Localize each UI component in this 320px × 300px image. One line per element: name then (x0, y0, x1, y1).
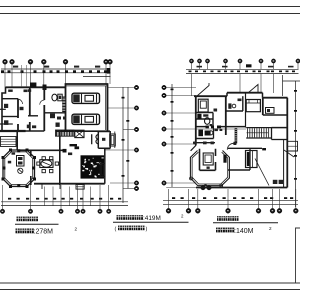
plan2 left wall (195, 96, 197, 145)
plan2 bed wall (262, 98, 264, 115)
plan1 bottom axis bubble 4 (75, 209, 79, 213)
plan2 bottom axis stem 4 (227, 189, 229, 208)
plan2 top wall connector 2 (262, 93, 264, 98)
plan2 bay corner circle 3 (190, 177, 193, 180)
plan2 roof gable right (249, 85, 259, 93)
plan1 door arc room2 (18, 99, 23, 104)
plan2 top axis line 1 (191, 63, 193, 69)
plan1 top axis bubble 3 (28, 59, 33, 64)
plan2 bath1 wall (226, 110, 243, 112)
plan1 right wall window (110, 134, 116, 146)
plan1 extension line a (21, 65, 23, 87)
plan1 top axis bubble 6 (104, 59, 109, 64)
plan2 bottom axis bubble 2 (186, 208, 191, 213)
svg-text::419M: :419M (143, 215, 161, 222)
plan1 dim end tick (107, 68, 110, 74)
plan1 car 2 (72, 114, 100, 124)
svg-text:2: 2 (269, 226, 272, 231)
plan2 top axis line 6 (260, 63, 262, 69)
plan1 dining divider wall (30, 150, 32, 185)
plan1 wall A vertical (17, 99, 19, 131)
plan2 mid room wall (228, 169, 250, 171)
plan1 dining right wall (59, 150, 61, 185)
plan1 kitchen fixture 1 (52, 94, 57, 101)
plan1 top axis line 6 (105, 64, 107, 84)
plan1 living table round (18, 168, 23, 173)
plan2 right dim vert 1 (282, 75, 284, 96)
plan1 dining chairs (42, 157, 45, 160)
plan1 right axis leader 4 (104, 149, 134, 151)
plan2 center wall v (245, 93, 247, 128)
plan1 top axis line 2 (11, 64, 13, 87)
plan1 right axis bubble 4 (134, 148, 138, 152)
plan2 corridor marks (215, 129, 218, 132)
plan1 bottom dimension line 2 (1, 205, 128, 207)
plan1 top axis bubble 2 (10, 59, 15, 64)
plan2 bay connector (191, 146, 196, 151)
plan1 column on top wall (30, 83, 36, 87)
plan1 door mark hall (28, 89, 31, 92)
plan2 top dimension texts (197, 66, 203, 68)
plan1 furniture mark room3 (4, 120, 8, 125)
plan1 bottom dimension ticks (8, 198, 11, 200)
plan1 garage top inner line (66, 85, 108, 87)
plan2 left axis leader 6 (166, 182, 196, 184)
svg-text::278M: :278M (34, 229, 54, 236)
plan1 bottom axis stem 4 (77, 185, 79, 209)
svg-text:(: ( (115, 226, 117, 232)
plan2 roof gable left (197, 83, 209, 96)
plan1 lower right wall (104, 152, 106, 184)
plan2 left axis bubble 4 (162, 127, 166, 131)
plan1 wall hall h (28, 115, 38, 117)
plan2 left axis leader 5 (166, 143, 196, 145)
plan1 top dimension ticks (1, 70, 4, 72)
plan1 bottom wall (34, 183, 105, 185)
plan2 bottom axis stem 7 (279, 189, 281, 208)
plan1 right axis leader 3 (123, 129, 134, 131)
plan2 bottom dimension line 1 (163, 200, 298, 202)
plan1 garage outline (66, 84, 108, 131)
plan2 wall v right area (249, 148, 251, 170)
plan1 bottom axis stem 2 (30, 185, 32, 209)
plan1 right axis bubble 1 (134, 85, 138, 89)
plan2 bay corner circle 2 (220, 184, 223, 187)
plan2 room1 desk (198, 99, 208, 112)
plan2 top axis bubble 5 (238, 59, 242, 63)
plan1 wall under left rooms (0, 123, 13, 125)
plan2 bottom axis bubble 8 (293, 208, 298, 213)
plan2 bottom axis bubble 6 (270, 208, 275, 213)
plan1 top dimension line 3 (83, 76, 111, 78)
plan2 top axis bubble 1 (189, 59, 193, 63)
plan2 left axis bubble 3 (162, 111, 166, 115)
plan2 left axis leader 3 (166, 112, 196, 114)
plan2 axis drop 2 (260, 74, 262, 93)
plan2 bottom axis bubble 4 (226, 208, 231, 213)
plan1 dining top wall blob (63, 149, 67, 153)
plan2 axis drop long (191, 74, 193, 96)
plan2 right balcony (287, 141, 297, 151)
plan2 bath1 fixtures (228, 103, 231, 108)
sheet border bottom line 1 (0, 282, 300, 284)
plan2 top dimension ticks (189, 71, 192, 73)
plan1 dining top wall (17, 149, 62, 151)
label plan2 title (217, 216, 221, 221)
plan1 car 1 (72, 93, 100, 103)
plan1 bay window outer (3, 150, 35, 187)
plan1 bottom axis stem 1 (2, 185, 4, 209)
plan2 door arc (227, 143, 233, 149)
plan1 bottom axis bubble 2 (28, 209, 32, 213)
plan1 mid wall left (26, 130, 45, 132)
plan2 top axis bubble 2 (197, 59, 201, 63)
plan2 bottom axis stem 8 (295, 189, 297, 208)
plan2 staircase (246, 128, 271, 138)
plan1 right dim line 1 (122, 87, 124, 203)
plan1 wc fixture (102, 138, 105, 141)
plan1 bottom axis stem 3 (60, 185, 62, 209)
plan2 roof diagonal 1 (255, 159, 269, 186)
plan1 top dimension texts (13, 66, 18, 68)
plan2 top wall right block (263, 97, 288, 99)
plan1 entry threshold (70, 144, 78, 146)
plan1 bay mullion marks (9, 149, 12, 152)
plan2 small bath wall (196, 112, 213, 114)
plan2 planter boxes (273, 180, 278, 184)
plan1 wall room divider h1 (2, 98, 18, 100)
plan1 pantry fixture (50, 114, 55, 119)
plan2 bottom dimension line 2 (163, 204, 298, 206)
plan1 bottom axis stem 7 (108, 185, 110, 209)
plan1 hall wall v (59, 131, 61, 150)
plan1 right corner wall (105, 149, 110, 153)
svg-text::140M: :140M (234, 228, 254, 235)
plan2 left axis leader 4 (166, 128, 246, 130)
plan2 stair room wall (272, 139, 288, 141)
plan2 bath1 right wall (242, 96, 244, 111)
plan2 right dim vert 2 (295, 81, 297, 207)
plan2 top axis bubble 7 (271, 59, 275, 63)
plan2 top axis line 5 (239, 63, 241, 69)
plan2 left axis leader 1 (166, 87, 196, 89)
plan2 axis drop 1 (239, 74, 241, 93)
plan2 wall h right area (228, 147, 262, 149)
plan2 bottom axis stem 3 (197, 189, 199, 208)
plan1 store fixtures (57, 117, 61, 120)
plan1 bottom axis bubble 3 (59, 209, 63, 213)
plan1 bath fixtures left (27, 125, 31, 129)
plan2 bay room window marks (193, 142, 196, 145)
plan2 dim text block (246, 64, 252, 67)
plan2 top axis line 4 (225, 63, 227, 69)
plan2 bay bed mark (207, 167, 210, 169)
plan2 roof diagonal 2 (284, 150, 294, 157)
plan1 bottom extension lines (44, 187, 46, 206)
plan1 porch step lines (1, 138, 17, 140)
plan2 bottom wall (196, 187, 287, 189)
plan2 top wall left block (194, 95, 227, 97)
title block corner (296, 228, 301, 283)
plan2 bath2 fixtures (198, 130, 203, 137)
plan2 corner mark (262, 148, 266, 150)
plan2 wall v mid (225, 96, 227, 135)
plan2 top axis line 2 (199, 63, 201, 69)
plan2 left axis leader 2 (166, 95, 196, 97)
svg-text:2: 2 (75, 227, 78, 232)
plan2 room1 bottom wall (196, 118, 213, 120)
plan2 left dim line (171, 84, 173, 187)
plan1 left wall upper (2, 87, 6, 132)
plan1 top axis line 5 (65, 64, 67, 131)
plan1 right axis leader 2 (107, 107, 134, 109)
sheet border top line 2 (0, 13, 300, 15)
plan1 wc room (98, 132, 110, 149)
plan1 double door (92, 134, 99, 144)
plan1 right dim line 2 (127, 87, 129, 189)
plan2 top axis bubble 3 (205, 59, 209, 63)
plan1 living sofa (17, 156, 25, 167)
plan1 top axis line 7 (109, 64, 111, 84)
plan2 inner right wall (283, 140, 285, 188)
plan1 mid wall window hatch (56, 130, 75, 136)
plan2 top axis bubble 6 (259, 59, 263, 63)
plan1 top axis bubble 1 (3, 59, 8, 64)
plan1 furniture mark room1b (8, 90, 13, 92)
plan2 small bath fixtures (197, 114, 201, 119)
plan1 hall text mark (68, 153, 72, 156)
plan1 bottom axis bubble 7 (107, 209, 111, 213)
plan1 kitchen fixture 2 (58, 94, 62, 101)
plan2 bottom axis stem 1 (168, 189, 170, 208)
plan1 left small ledge (0, 108, 6, 110)
plan2 bath2 side wall (213, 128, 215, 139)
plan1 right axis bubble 3 (134, 127, 138, 131)
plan2 bottom axis bubble 7 (277, 208, 282, 213)
plan2 dresser (266, 108, 275, 114)
plan1 top dimension line 2 (1, 72, 111, 74)
plan2 stair wall v (271, 128, 273, 140)
plan2 top axis line 3 (207, 63, 209, 69)
plan2 room1 mark (214, 109, 218, 112)
plan2 bay room wall top (193, 142, 215, 144)
plan2 bath2 wall (196, 138, 214, 140)
label plan2 underline (213, 222, 278, 224)
plan2 top wall mid block (227, 92, 263, 94)
plan1 right axis bubble 6 (134, 186, 138, 190)
plan2 hatch wall v (235, 128, 238, 143)
svg-text:): ) (146, 226, 148, 232)
plan1 top axis bubble 7 (108, 59, 113, 64)
plan1 bottom axis stem 6 (99, 185, 101, 209)
plan1 top axis bubble 5 (63, 59, 68, 64)
plan1 right wall double (109, 131, 111, 149)
plan1 wall B vertical (29, 88, 31, 132)
plan2 left axis bubble 6 (162, 181, 166, 185)
plan1 wall room divider h2 (2, 116, 18, 118)
plan1 column at hall top (43, 85, 47, 91)
plan1 furniture mark room2b (24, 90, 28, 93)
plan1 mid wall right (56, 130, 110, 132)
plan2 top axis line 7 (273, 63, 275, 69)
plan2 bed (246, 100, 260, 112)
plan1 right axis bubble 5 (134, 181, 138, 185)
plan2 top axis bubble 8 (296, 59, 300, 63)
plan2 right wall (286, 98, 288, 188)
plan1 house top wall (6, 86, 66, 88)
plan1 right dimension ticks (122, 97, 125, 99)
plan1 top axis line 1 (4, 64, 6, 87)
plan2 bottom axis bubble 5 (256, 208, 261, 213)
plan1 top axis bubble 4 (41, 59, 46, 64)
plan2 bottom axis stem 5 (258, 189, 260, 208)
plan2 bottom axis stem 6 (272, 189, 274, 208)
plan2 corridor wall (196, 126, 246, 128)
plan2 bay bed (203, 153, 213, 165)
plan1 furniture mark room1 (4, 104, 8, 108)
plan1 bottom dimension line 1 (1, 201, 128, 203)
plan1 bottom axis bubble 5 (81, 209, 85, 213)
plan2 bay outer (190, 151, 229, 186)
plan1 lower right window (100, 164, 105, 177)
plan2 top axis bubble 4 (223, 59, 227, 63)
plan1 top axis line 4 (43, 64, 45, 87)
label plan1 title (17, 217, 21, 222)
plan1 right axis leader 6 (123, 188, 134, 190)
plan2 left axis bubble 1 (162, 85, 166, 89)
plan1 extension line b (26, 65, 28, 87)
plan2 top wall connector 1 (226, 93, 228, 97)
plan1 door arc hall (40, 100, 45, 105)
plan1 living mark (12, 153, 16, 155)
plan1 entry hatched box (75, 130, 84, 137)
sheet border bottom line 2 (0, 289, 300, 291)
label plan1 underline (15, 223, 59, 225)
plan2 left dimension ticks (171, 89, 174, 91)
plan1 furniture mark room2 (20, 107, 24, 110)
plan2 small bath side wall (212, 113, 214, 127)
plan2 bay corner circle 1 (204, 185, 207, 188)
plan2 bottom dimension ticks (172, 197, 175, 199)
plan1 garage inner right line (105, 86, 107, 130)
label mid title cjk (117, 215, 121, 220)
plan2 corridor door marks (206, 126, 209, 129)
plan2 bay inner (192, 152, 228, 184)
plan2 corridor wall right (272, 127, 288, 129)
label plan1 area cjk (16, 229, 20, 234)
plan1 right axis leader 1 (107, 87, 134, 89)
label mid underline (113, 221, 189, 223)
plan1 bottom axis bubble 6 (98, 209, 102, 213)
plan2 right dim ticks (294, 90, 297, 92)
plan1 porch side wall (16, 131, 18, 150)
plan2 right room wall h (263, 114, 288, 116)
plan2 black bar (223, 155, 226, 163)
plan2 top dimension line 2 (186, 73, 299, 75)
plan2 axis drop 3 (273, 74, 275, 93)
plan1 dining table (40, 160, 53, 168)
plan1 porch step box (1, 137, 17, 147)
sheet border top line 1 (0, 6, 300, 8)
plan2 left axis bubble 2 (162, 93, 166, 97)
plan1 top dimension line 1 (1, 68, 111, 70)
plan2 top dimension line 1 (186, 68, 299, 70)
plan1 bottom step (76, 185, 84, 190)
plan2 closet (246, 151, 258, 168)
plan1 terrace edge (42, 184, 60, 189)
plan2 corner bubble pair (201, 185, 206, 190)
plan1 right axis bubble 2 (134, 106, 138, 110)
plan2 bay bedroom walls (200, 149, 216, 171)
plan1 staircase hatch (81, 155, 105, 178)
plan1 kitchen hatched wall (62, 97, 65, 113)
plan1 right axis leader 5 (110, 182, 134, 184)
plan2 bottom axis stem 2 (188, 189, 190, 208)
plan1 bottom axis stem 5 (82, 185, 84, 209)
plan1 living mark 2 (8, 161, 11, 164)
plan2 right leader line (283, 80, 301, 82)
plan2 top axis line 8 (297, 63, 299, 69)
plan1 kitchen bottom wall (44, 112, 66, 114)
plan1 bottom axis bubble 1 (0, 209, 4, 213)
plan1 left wing bottom wall (0, 130, 26, 132)
plan2 bottom axis bubble 3 (195, 208, 200, 213)
plan1 wall C vertical (43, 88, 45, 132)
plan2 left axis bubble 5 (162, 142, 166, 146)
plan2 bottom axis bubble 1 (166, 208, 171, 213)
plan2 corner bubble leader (166, 187, 201, 189)
plan1 top axis line 3 (30, 64, 32, 87)
label plan2 area cjk (216, 228, 220, 233)
plan1 bay window inner (5, 152, 33, 185)
